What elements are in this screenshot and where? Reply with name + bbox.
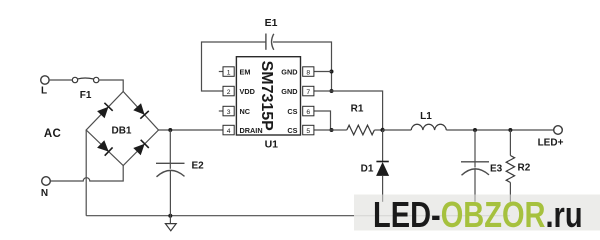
svg-text:R2: R2 — [518, 163, 531, 174]
svg-text:CS: CS — [287, 126, 297, 135]
svg-text:GND: GND — [281, 87, 297, 96]
wire N to bridge bottom corner with hop — [50, 166, 123, 182]
wire D1 fading into watermark — [382, 195, 384, 202]
svg-text:LED+: LED+ — [538, 138, 564, 149]
svg-text:VDD: VDD — [240, 87, 255, 96]
watermark led-obzor.ru background — [354, 195, 600, 231]
wire R2 fading into watermark — [509, 195, 511, 202]
op-amp U1 body SM7315P — [236, 57, 300, 135]
ground rail wire — [86, 215, 510, 217]
node E2 top junction — [168, 128, 172, 132]
fuse F1 — [72, 77, 99, 82]
wire E3 fading into watermark — [474, 195, 476, 202]
svg-text:E3: E3 — [490, 164, 503, 175]
wire CS pin 6 down to pin 5 row — [314, 111, 331, 130]
capacitor E1 — [266, 34, 274, 50]
capacitor E3 — [461, 130, 489, 202]
bridge rectifier DB1 — [86, 92, 158, 166]
svg-text:3: 3 — [227, 109, 231, 116]
svg-text:E1: E1 — [265, 17, 278, 29]
bridge diode top-left — [97, 103, 113, 119]
terminal N — [42, 177, 51, 186]
pin 8 GND — [281, 67, 331, 77]
pin 7 GND — [281, 86, 331, 96]
svg-text:F1: F1 — [80, 90, 92, 101]
svg-text:SM7315P: SM7315P — [258, 61, 275, 132]
svg-text:N: N — [41, 188, 48, 199]
svg-text:D1: D1 — [361, 164, 374, 175]
svg-text:7: 7 — [306, 89, 310, 96]
wire VDD loop: top wire left segment and down to pin 2 — [202, 42, 266, 91]
bridge diode bottom-left — [97, 140, 113, 156]
svg-text:2: 2 — [227, 89, 231, 96]
capacitor E2 — [156, 130, 185, 216]
svg-text:AC: AC — [44, 128, 61, 140]
node output junction — [380, 128, 384, 132]
terminal LED+ — [554, 126, 563, 135]
svg-text:GND: GND — [281, 67, 297, 76]
node R2 junction — [508, 128, 512, 132]
svg-text:DB1: DB1 — [111, 126, 131, 137]
svg-text:8: 8 — [306, 70, 310, 77]
wire output node down to D1 — [382, 130, 384, 162]
wire L to fuse — [49, 79, 72, 81]
diode D1 — [376, 162, 389, 202]
watermark led-obzor.ru text — [373, 194, 583, 235]
pin 2 VDD — [223, 86, 255, 96]
wire bridge left corner down to ground rail — [85, 130, 87, 216]
svg-text:1: 1 — [227, 70, 231, 77]
wire L1 to LED+ — [446, 129, 553, 131]
wire bridge right corner to DRAIN pin 4 — [159, 129, 224, 131]
bridge diode bottom-right — [133, 140, 149, 156]
bridge diode top-right — [133, 103, 149, 119]
wire GND pin 7 to output node — [332, 91, 383, 130]
svg-text:E2: E2 — [192, 161, 205, 172]
wire fuse to bridge top corner — [99, 80, 123, 92]
svg-text:4: 4 — [227, 128, 231, 135]
node E3 junction — [473, 128, 477, 132]
svg-text:EM: EM — [240, 67, 251, 76]
inductor L1 — [411, 124, 446, 130]
pin 5 CS — [287, 125, 331, 135]
svg-text:L: L — [41, 85, 47, 96]
pin 4 DRAIN — [223, 125, 263, 135]
resistor R2 — [506, 130, 514, 202]
pin 3 NC — [219, 106, 251, 116]
ground marker arrow — [169, 216, 171, 224]
pin 1 EM — [219, 67, 251, 77]
wire E1 right plate to pin 8 / pin 7 — [273, 42, 332, 91]
svg-text:U1: U1 — [265, 139, 279, 151]
wire output node to L1 — [383, 129, 412, 131]
svg-text:LED-OBZOR.ru: LED-OBZOR.ru — [373, 194, 583, 235]
svg-text:NC: NC — [240, 107, 251, 116]
svg-text:DRAIN: DRAIN — [240, 126, 263, 135]
pin 6 CS — [287, 106, 314, 116]
wire R1 to output node — [374, 129, 382, 131]
node pin 8 junction — [330, 70, 334, 74]
svg-text:CS: CS — [287, 107, 297, 116]
node E2 rail junction — [168, 214, 172, 218]
svg-text:6: 6 — [306, 109, 310, 116]
node CS junction — [330, 128, 334, 132]
svg-text:L1: L1 — [420, 111, 432, 122]
svg-text:R1: R1 — [351, 104, 364, 115]
terminal L — [41, 76, 49, 84]
svg-text:5: 5 — [306, 128, 310, 135]
wire CS node to R1 — [332, 129, 347, 131]
resistor R1 — [347, 125, 375, 135]
node pin 7 junction — [330, 89, 334, 93]
